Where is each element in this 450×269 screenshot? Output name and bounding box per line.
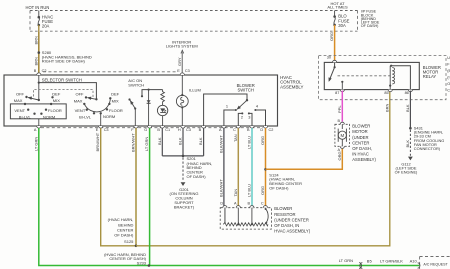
fuse BLO FUSE 30A (334, 11, 336, 16)
svg-text:C2: C2 (42, 69, 47, 73)
wire LT GRN (A/C request) (39, 128, 420, 265)
wire BRN/WHT from pin F (135, 128, 137, 246)
svg-text:BLOWER: BLOWER (274, 206, 292, 211)
svg-text:E: E (96, 128, 99, 132)
relay actuation dashed (338, 75, 391, 77)
relay pin 85 (388, 90, 392, 92)
svg-text:86: 86 (405, 91, 409, 95)
svg-text:LT GRN/BLK: LT GRN/BLK (380, 258, 403, 263)
diode (148, 90, 150, 126)
svg-text:BRN: BRN (33, 57, 38, 66)
svg-text:FLOOR: FLOOR (48, 108, 62, 113)
pin D at x=265.5 (263, 126, 267, 128)
relay switch (334, 62, 336, 66)
svg-text:D: D (260, 128, 263, 132)
svg-text:M: M (340, 133, 344, 138)
svg-text:HOT IN RUN: HOT IN RUN (26, 5, 50, 10)
svg-text:G: G (144, 128, 147, 132)
wire blower switch feed (204, 94, 247, 126)
rotary 1 common box (10, 104, 66, 119)
svg-text:OF DASH): OF DASH) (114, 233, 134, 238)
blower motor relay dashed box (319, 56, 446, 100)
svg-text:OF DASH): OF DASH) (269, 186, 289, 191)
svg-text:BLK: BLK (405, 104, 410, 112)
svg-text:ALL TIMES: ALL TIMES (327, 4, 348, 9)
blower switch contact 3 (248, 112, 250, 114)
resistor (LED dropping) (161, 90, 165, 106)
svg-text:FLOOR: FLOOR (109, 108, 123, 113)
svg-text:ASSEMBLY: ASSEMBLY (280, 84, 303, 89)
rotary 1 contacts (25, 96, 27, 98)
wire BLK pin H C3 (182, 128, 184, 156)
svg-text:RESISTOR: RESISTOR (274, 212, 295, 217)
svg-text:ORG: ORG (337, 151, 342, 160)
svg-text:BRN: BRN (384, 103, 389, 112)
pin A at x=38.8 (37, 126, 41, 128)
wire A/C rail (142, 90, 163, 96)
svg-text:(I: (I (447, 75, 449, 79)
wire GRY to interior lights (181, 52, 183, 73)
svg-text:85: 85 (384, 91, 388, 95)
svg-text:NORM: NORM (103, 114, 115, 119)
pin B at x=203.6 (202, 126, 206, 128)
svg-text:20A: 20A (42, 23, 50, 28)
resistor pin D (223, 206, 227, 208)
svg-text:LT GRN: LT GRN (144, 137, 149, 151)
svg-text:30A: 30A (338, 23, 346, 28)
svg-text:VENT: VENT (75, 108, 86, 113)
svg-text:VENT: VENT (14, 108, 25, 113)
svg-text:S125: S125 (124, 239, 134, 244)
relay pin 86 (408, 90, 412, 92)
pin E at x=100.7 (99, 126, 103, 128)
svg-text:OF ENGINE): OF ENGINE) (395, 170, 418, 175)
pin B at x=162.3 (160, 126, 164, 128)
svg-text:B5: B5 (367, 258, 373, 263)
splice S431 (409, 127, 412, 130)
relay coil (389, 66, 391, 86)
I/P fuse block (dashed box across top) (30, 10, 358, 12)
wire TAN pin C to resistor A (237, 128, 239, 206)
resistor pin A (236, 206, 240, 208)
svg-text:3: 3 (248, 115, 250, 120)
svg-text:B: B (247, 128, 250, 132)
wire ORG S124 to blower motor (266, 149, 343, 170)
svg-text:(UNDER: (UNDER (352, 135, 368, 140)
wire BLK pin B (203, 128, 205, 156)
svg-text:B: B (157, 128, 160, 132)
inline connector on LT GRN (359, 263, 362, 269)
svg-text:LIGHTS SYSTEM: LIGHTS SYSTEM (166, 44, 198, 49)
resistor pin C (263, 206, 267, 208)
pin C at x=238.3 (236, 126, 240, 128)
blower resistor box (220, 208, 271, 229)
blower motor M (341, 124, 343, 129)
pin F at x=136.0 (134, 126, 138, 128)
svg-text:OFF: OFF (16, 91, 25, 96)
svg-text:LT GRN: LT GRN (33, 137, 38, 151)
svg-text:ORG: ORG (260, 186, 265, 195)
blower switch contact 4 (254, 109, 256, 111)
wire ORG pin D C2 to S124 (265, 128, 267, 206)
svg-text:MAX: MAX (74, 98, 83, 103)
wire BLK pin B C1 (161, 128, 163, 156)
svg-text:LT BLU: LT BLU (247, 184, 252, 197)
LED A/C indicator (157, 105, 167, 115)
svg-text:DEF: DEF (111, 91, 120, 96)
svg-text:OF DASH, IN: OF DASH, IN (274, 223, 299, 228)
wire rotary 2 NORM output (100, 113, 102, 126)
fuse HVAC FUSE 20A (38, 11, 40, 17)
wire selector feed left (38, 75, 40, 100)
svg-text:CONNECTOR): CONNECTOR) (414, 146, 441, 151)
blower switch contact 2 (241, 112, 243, 114)
svg-text:BLK: BLK (178, 137, 183, 145)
A/C on switch (128, 98, 130, 100)
svg-text:BI-LVL: BI-LVL (79, 115, 92, 120)
svg-text:2: 2 (241, 115, 243, 120)
svg-text:BLK/WHT: BLK/WHT (218, 179, 223, 197)
wire BRN/WHT to blower relay coil (136, 90, 390, 246)
svg-text:A10: A10 (410, 258, 418, 263)
relay solid box (324, 62, 419, 89)
wire ORG from BLO fuse to relay terminal 30 (334, 25, 336, 61)
svg-text:E: E (177, 69, 180, 73)
svg-text:RELAY: RELAY (423, 74, 437, 79)
svg-text:C: C (261, 202, 264, 206)
svg-text:CENTER: CENTER (352, 140, 369, 145)
svg-text:OF DASH): OF DASH) (361, 24, 379, 28)
svg-text:B: B (34, 69, 37, 73)
blower motor box (335, 124, 350, 146)
relay pin 87 (340, 90, 344, 92)
svg-text:C1: C1 (165, 128, 170, 132)
resistor pin B (250, 206, 254, 208)
svg-text:RIGHT SIDE OF DASH): RIGHT SIDE OF DASH) (42, 59, 86, 64)
svg-text:BRN/WHT: BRN/WHT (95, 132, 100, 151)
svg-text:A: A (34, 128, 37, 132)
svg-text:BRACKET): BRACKET) (174, 204, 195, 209)
svg-text:HVAC ASSEMBLY): HVAC ASSEMBLY) (274, 229, 311, 234)
splice S201 + ground G201 (162, 155, 203, 157)
svg-text:MAX: MAX (14, 98, 23, 103)
svg-text:TAN: TAN (233, 189, 238, 197)
blower switch contact 1 (235, 109, 237, 111)
svg-text:C2: C2 (269, 128, 274, 132)
wire BRN from HVAC fuse to selector switch (38, 31, 40, 72)
motor pin A (340, 146, 344, 148)
wire BLK relay 86 to S431 (409, 91, 411, 129)
HVAC control assembly box (4, 75, 278, 126)
rotary 2 contact arc (84, 98, 110, 112)
selector switch rotary 1 wiper (38, 99, 40, 101)
svg-text:MIX: MIX (112, 98, 119, 103)
svg-text:BRN: BRN (33, 36, 38, 45)
wire LT GRN from pin G (149, 128, 151, 265)
svg-text:ILLUM: ILLUM (189, 87, 201, 92)
svg-text:A/C REQUEST: A/C REQUEST (423, 262, 448, 266)
svg-text:TAN: TAN (233, 134, 238, 142)
blower switch wiper (246, 99, 248, 101)
svg-text:ORG: ORG (260, 136, 265, 145)
svg-text:ORG: ORG (329, 32, 334, 41)
relay pin 30 (333, 60, 337, 62)
svg-text:BLK/WHT: BLK/WHT (218, 135, 223, 153)
pin G at x=149.6 (148, 126, 152, 128)
splice S124 (264, 168, 267, 171)
svg-text:MIX: MIX (53, 98, 60, 103)
svg-text:1: 1 (226, 104, 228, 109)
svg-text:C3: C3 (185, 69, 190, 73)
svg-text:C3: C3 (104, 128, 109, 132)
motor pin B (340, 122, 344, 124)
svg-text:LT BLU: LT BLU (247, 136, 252, 149)
svg-text:B: B (248, 202, 251, 206)
svg-text:C: C (233, 128, 236, 132)
svg-text:SWITCH: SWITCH (237, 88, 254, 93)
splice S125 (135, 245, 138, 248)
ground G112 (408, 157, 413, 161)
connector dashed line C2-C3 at top (43, 71, 177, 73)
svg-text:BLK: BLK (198, 137, 203, 145)
mechanical link dashed (34, 89, 94, 97)
wire PNK relay 87 to blower motor (341, 91, 343, 122)
splice S233 (148, 264, 151, 267)
pin B at x=252.0 (250, 126, 254, 128)
svg-text:S233: S233 (137, 261, 147, 266)
svg-text:D: D (220, 202, 223, 206)
wire BLK/WHT pin A to resistor D (223, 128, 225, 206)
svg-text:LT GRN: LT GRN (339, 258, 353, 263)
svg-text:PPL: PPL (337, 105, 342, 113)
svg-text:BLK: BLK (157, 137, 162, 145)
svg-text:DEF: DEF (52, 91, 61, 96)
svg-text:87: 87 (335, 91, 339, 95)
resistor element (224, 208, 226, 224)
relay coil loop to pin 86 (390, 66, 410, 90)
wire LT BLU pin B to resistor B (251, 128, 253, 206)
svg-text:(UNDER CENTER: (UNDER CENTER (274, 217, 309, 222)
pin A at x=223.9 (222, 126, 226, 128)
svg-text:MOTOR: MOTOR (352, 129, 368, 134)
svg-text:GRY: GRY (177, 57, 182, 66)
svg-text:OF DASH): OF DASH) (187, 174, 207, 179)
svg-text:BLOWER: BLOWER (352, 124, 370, 129)
svg-text:C3: C3 (186, 128, 191, 132)
selector switch rotary 2 wiper (95, 98, 97, 100)
svg-text:SELECTOR SWITCH: SELECTOR SWITCH (42, 78, 82, 83)
svg-text:ASSEMBLY): ASSEMBLY) (352, 157, 376, 162)
pin H at x=183.0 (181, 126, 185, 128)
svg-text:SWITCH: SWITCH (128, 83, 144, 88)
splice S280 (38, 51, 41, 54)
rotary 2 contacts (85, 96, 87, 98)
svg-text:H: H (178, 128, 181, 132)
connector dashed line C1 C2 C3 bottom (41, 127, 263, 129)
wire BRN/WHT from pin E (101, 128, 136, 246)
svg-text:BLK: BLK (405, 140, 410, 148)
svg-text:30: 30 (327, 55, 331, 59)
A/C request dashed box (420, 256, 450, 258)
svg-text:OF DASH,: OF DASH, (352, 146, 372, 151)
svg-text:BRN/WHT: BRN/WHT (131, 133, 136, 152)
svg-text:OFF: OFF (76, 91, 85, 96)
svg-text:IN HVAC: IN HVAC (352, 152, 369, 157)
